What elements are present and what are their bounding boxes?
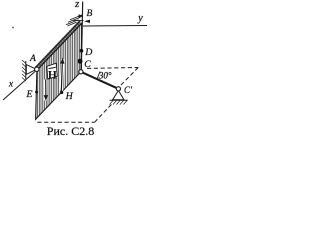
svg-text:E: E [26, 89, 33, 100]
hatched ribbon along top edge AB [35, 21, 82, 71]
rod C-C' [81, 72, 119, 89]
svg-text:A: A [29, 54, 36, 64]
ground line under C' [110, 99, 128, 101]
svg-text:Рис. С2.8: Рис. С2.8 [47, 124, 94, 138]
svg-text:C′: C′ [124, 85, 133, 95]
plate face hatched parallelogram A-B-C-E0 [36, 23, 82, 119]
hinge circle at C' [116, 87, 120, 91]
arrowhead at B pointing right [79, 14, 84, 17]
z axis [81, 2, 82, 72]
C point dot [78, 59, 83, 64]
ground hatching under C' [110, 101, 128, 105]
H point dot [60, 91, 63, 94]
y axis [83, 25, 147, 28]
hinge circle at plate bottom corner C [79, 70, 83, 74]
svg-text:B: B [86, 9, 92, 19]
svg-text:z: z [74, 0, 80, 10]
dashed plane: left-front diagonal up to C' support [95, 104, 113, 123]
support triangle at C' [113, 91, 124, 100]
x axis [3, 72, 35, 101]
vector bar over H [49, 67, 56, 68]
support triangle at A [26, 65, 36, 75]
arrowhead at B pointing left [84, 20, 90, 23]
support bracket at B [66, 15, 84, 26]
dashed plane: right edge down to C' [121, 68, 139, 86]
E point dot [35, 91, 38, 94]
svg-text:H: H [48, 69, 57, 81]
30 degree angle tick [97, 72, 100, 80]
dashed plane: bottom edge [37, 121, 94, 123]
wall + pin support at A [22, 60, 26, 81]
svg-text:y: y [137, 13, 143, 24]
svg-text:30°: 30° [98, 70, 112, 80]
speck [12, 27, 14, 29]
white label box on plate [47, 63, 57, 79]
svg-text:x: x [8, 80, 14, 90]
pin circle at A [35, 67, 39, 71]
up force arrow at H [60, 58, 65, 92]
svg-text:D: D [84, 47, 92, 58]
svg-text:H: H [65, 91, 74, 102]
down force arrow from box [44, 80, 48, 102]
D point dot [80, 49, 84, 53]
dashed plane: top edge from C [87, 67, 138, 70]
